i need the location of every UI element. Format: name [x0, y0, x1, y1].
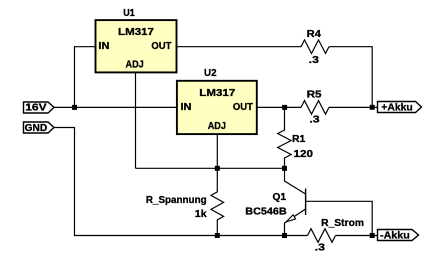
wire: R_Strom to -Akku [336, 235, 378, 237]
transistor Q1 base bar [305, 189, 307, 216]
svg-text:ADJ: ADJ [208, 120, 226, 132]
svg-text:R5: R5 [307, 89, 322, 101]
wire: U1 ADJ vertical [135, 72, 137, 168]
IC U2 body [177, 81, 257, 134]
svg-text:U2: U2 [204, 67, 217, 79]
svg-text:16V: 16V [25, 103, 47, 114]
node: R_Spannung bottom junction [215, 233, 220, 238]
svg-text:.3: .3 [309, 54, 319, 66]
node: U2 OUT junction [282, 105, 287, 110]
node: 16V junction [72, 105, 77, 110]
transistor Q1 emitter [285, 209, 306, 236]
svg-text:IN: IN [98, 40, 109, 52]
node: -Akku junction [370, 233, 375, 238]
svg-text:.3: .3 [309, 114, 319, 126]
svg-text:BC546B: BC546B [245, 206, 287, 218]
node: emitter junction [282, 233, 287, 238]
svg-text:IN: IN [181, 101, 192, 113]
resistor R5 [301, 101, 329, 115]
svg-text:1k: 1k [195, 208, 207, 220]
wire: ADJ rail [136, 167, 285, 169]
svg-text:U1: U1 [123, 7, 135, 19]
transistor Q1 base lead [306, 201, 373, 235]
svg-text:LM317: LM317 [118, 26, 154, 38]
resistor R_Spannung [211, 168, 224, 235]
svg-text:-Akku: -Akku [380, 230, 410, 242]
svg-text:GND: GND [25, 123, 48, 134]
net tag 16V [24, 102, 55, 113]
wire: U2 ADJ vertical [216, 134, 218, 168]
wire: U2 OUT to R5 [257, 106, 301, 108]
node: ADJ/R1/collector junction [282, 166, 287, 171]
IC U1 body [96, 20, 177, 72]
wire: U1 IN branch [75, 47, 96, 108]
net tag GND [24, 122, 55, 133]
net tag +Akku [378, 102, 422, 113]
svg-text:+Akku: +Akku [381, 101, 412, 113]
svg-text:R_Strom: R_Strom [321, 217, 364, 229]
wire: R5 to +Akku tag [329, 106, 378, 108]
resistor R4 [301, 40, 329, 54]
wire: U1 OUT to R4 [177, 46, 302, 48]
resistor R1 [278, 109, 291, 168]
net tag -Akku [378, 230, 419, 241]
svg-text:OUT: OUT [151, 40, 172, 52]
wire: GND down and bottom rail [54, 128, 308, 236]
svg-text:R4: R4 [307, 28, 321, 40]
svg-text:.3: .3 [315, 242, 325, 254]
svg-text:R1: R1 [292, 133, 306, 145]
resistor R_Strom [308, 229, 336, 243]
node: +Akku junction [370, 105, 375, 110]
svg-text:Q1: Q1 [273, 191, 287, 203]
transistor Q1 emitter arrow [286, 215, 295, 222]
node: ADJ/R_Spannung junction [215, 166, 220, 171]
wire: 16V rail [54, 106, 177, 108]
svg-text:ADJ: ADJ [126, 59, 144, 71]
svg-text:120: 120 [294, 148, 314, 160]
transistor Q1 collector stub [285, 168, 306, 194]
svg-text:R_Spannung: R_Spannung [146, 194, 207, 206]
wire: R4 to +Akku node [329, 47, 372, 108]
svg-text:OUT: OUT [233, 101, 254, 113]
svg-text:LM317: LM317 [199, 87, 235, 99]
